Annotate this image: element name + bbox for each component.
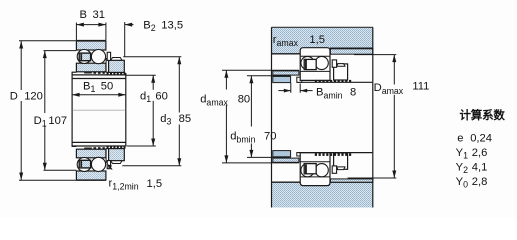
ball row bottom: left ball bbox=[77, 158, 91, 172]
housing band bottom bbox=[272, 182, 374, 207]
svg-text:80: 80 bbox=[238, 93, 250, 105]
lock washer strip top bbox=[106, 59, 109, 73]
svg-text:1,5: 1,5 bbox=[147, 178, 163, 190]
d_amax arrowheads bbox=[224, 70, 228, 78]
d1 top extension line bbox=[126, 74, 156, 76]
d3 bottom extension line bbox=[122, 165, 181, 167]
bearing bottom face line bbox=[76, 179, 106, 181]
svg-text:2,8: 2,8 bbox=[472, 176, 488, 188]
washer bent tab right figure top bbox=[337, 64, 345, 67]
d_bmin extension bottom bbox=[247, 156, 291, 158]
svg-text:107: 107 bbox=[48, 115, 67, 127]
sleeve body outline bbox=[72, 72, 126, 146]
D top extension line bbox=[19, 40, 76, 42]
D bottom extension line bbox=[19, 179, 76, 181]
section edge left bbox=[271, 27, 273, 207]
section edge right bbox=[372, 27, 374, 207]
dimension d3 line bbox=[178, 57, 180, 166]
d3 arrowheads bbox=[177, 57, 181, 64]
svg-text:111: 111 bbox=[412, 81, 429, 93]
cage pocket top bbox=[79, 53, 90, 61]
B extension lines bbox=[75, 23, 77, 41]
balls bottom right figure bbox=[301, 164, 314, 177]
B arrowheads bbox=[76, 23, 84, 27]
shaft abutment dark strip bottom bbox=[273, 158, 299, 162]
washer bent tab on nut top bbox=[111, 58, 122, 61]
d1 bottom extension line bbox=[127, 145, 156, 147]
svg-text:0,24: 0,24 bbox=[470, 132, 492, 144]
raceway line top right figure bbox=[301, 55, 330, 57]
dimension d_amax line bbox=[225, 70, 227, 163]
d_amax extension top bbox=[222, 69, 299, 71]
svg-text:60: 60 bbox=[155, 90, 167, 102]
housing band top left tab bbox=[272, 48, 301, 54]
lock nut top bbox=[109, 60, 125, 72]
cage pocket top right figure bbox=[304, 59, 316, 69]
inner ring line bottom right figure bbox=[301, 161, 330, 163]
shaft surface line top bbox=[297, 81, 373, 83]
d_amax extension bottom bbox=[222, 162, 299, 164]
sleeve lip top bbox=[297, 77, 302, 82]
cage bar over inner ring bottom bbox=[84, 148, 92, 150]
ball row bottom: right ball bbox=[91, 157, 105, 171]
thread teeth top right figure bbox=[315, 80, 351, 82]
svg-text:D: D bbox=[10, 91, 18, 103]
d3 top extension line bbox=[123, 56, 181, 58]
B_amin arrows bbox=[278, 90, 290, 92]
bearing top half: outer ring band bbox=[76, 41, 106, 50]
lock nut top right figure bbox=[334, 64, 348, 80]
thread teeth bottom right figure bbox=[315, 153, 351, 156]
D arrowheads bbox=[19, 41, 23, 49]
dimension D line bbox=[20, 41, 22, 180]
ball row top: left ball bbox=[77, 50, 91, 64]
sleeve centerline bbox=[73, 109, 126, 111]
cage bar under inner ring top bbox=[84, 72, 92, 74]
svg-text:B: B bbox=[80, 9, 87, 21]
dimension D_amax line bbox=[393, 55, 395, 178]
dimension B1 line bbox=[72, 94, 126, 96]
bearing top face line bbox=[76, 40, 106, 42]
D1 bottom extension line bbox=[44, 169, 77, 171]
housing shoulder strip bottom bbox=[330, 179, 372, 182]
dimension D1 line bbox=[44, 51, 46, 171]
bearing bottom half: outer ring band bbox=[76, 171, 106, 180]
B2 extension line bbox=[124, 22, 126, 57]
washer tab bottom right figure bbox=[332, 166, 336, 173]
D_amax arrowheads bbox=[392, 55, 396, 63]
washer bent tab right figure bottom bbox=[337, 167, 345, 170]
svg-text:70: 70 bbox=[264, 130, 276, 142]
inner ring line top right figure bbox=[301, 70, 330, 72]
D_amax extension bottom bbox=[348, 177, 397, 179]
d1 arrowheads bbox=[151, 75, 155, 83]
lock washer strip bottom bbox=[106, 149, 109, 163]
housing band top bottom edges bbox=[272, 53, 301, 55]
lock nut bottom bbox=[109, 149, 125, 161]
housing shoulder strip top bbox=[330, 49, 372, 54]
dimension d_bmin line bbox=[250, 76, 252, 158]
d_bmin arrowheads bbox=[249, 76, 253, 84]
housing band top bbox=[272, 27, 374, 48]
svg-text:8: 8 bbox=[350, 86, 356, 98]
svg-text:31: 31 bbox=[93, 9, 105, 21]
washer tab top bbox=[107, 52, 110, 60]
shaft abutment bright strip top bbox=[273, 76, 291, 82]
dimension B line bbox=[76, 24, 106, 26]
thread teeth top bbox=[94, 72, 126, 75]
raceway line bottom right figure bbox=[301, 176, 330, 178]
washer tab top right figure bbox=[332, 60, 336, 67]
bearing bottom half: inner ring band bbox=[76, 149, 106, 158]
r leader arrow to washer corner bottom bbox=[109, 165, 113, 169]
sleeve lip bottom bbox=[297, 153, 302, 156]
bearing top half: inner ring band bbox=[76, 63, 106, 72]
d_bmin extension top bbox=[247, 75, 291, 77]
cage pocket bottom right figure bbox=[304, 164, 316, 174]
balls top right figure bbox=[301, 56, 314, 69]
shaft surface line bottom bbox=[297, 152, 373, 154]
svg-text:13,5: 13,5 bbox=[161, 20, 183, 32]
bearing top (right figure) bbox=[300, 48, 330, 81]
svg-text:1,5: 1,5 bbox=[309, 34, 325, 46]
D1 top extension line bbox=[44, 50, 77, 52]
D_amax extension top bbox=[354, 54, 396, 56]
lock nut bottom right figure bbox=[334, 153, 348, 169]
B_amin extension lines bbox=[290, 83, 292, 93]
shaft abutment bright strip bottom bbox=[273, 151, 291, 157]
svg-text:4,1: 4,1 bbox=[472, 161, 488, 173]
svg-text:2,6: 2,6 bbox=[472, 147, 488, 159]
cage pocket bottom bbox=[79, 160, 90, 168]
svg-text:50: 50 bbox=[101, 80, 113, 92]
D1 arrowheads bbox=[43, 51, 47, 59]
washer tab bottom bbox=[107, 161, 110, 169]
B2 arrow bbox=[125, 24, 134, 26]
B1 arrowheads bbox=[72, 93, 80, 97]
svg-text:计算系数: 计算系数 bbox=[460, 108, 506, 122]
dimension d1 line bbox=[152, 75, 154, 146]
washer bent tab on nut bottom bbox=[111, 161, 122, 164]
bearing bottom (right figure) bbox=[300, 153, 330, 186]
ball row top: right ball bbox=[91, 50, 105, 64]
svg-text:120: 120 bbox=[24, 91, 43, 103]
svg-text:85: 85 bbox=[179, 113, 191, 125]
thread teeth bottom bbox=[94, 146, 126, 149]
svg-text:e: e bbox=[457, 132, 463, 144]
shaft abutment dark strip top bbox=[273, 71, 299, 75]
